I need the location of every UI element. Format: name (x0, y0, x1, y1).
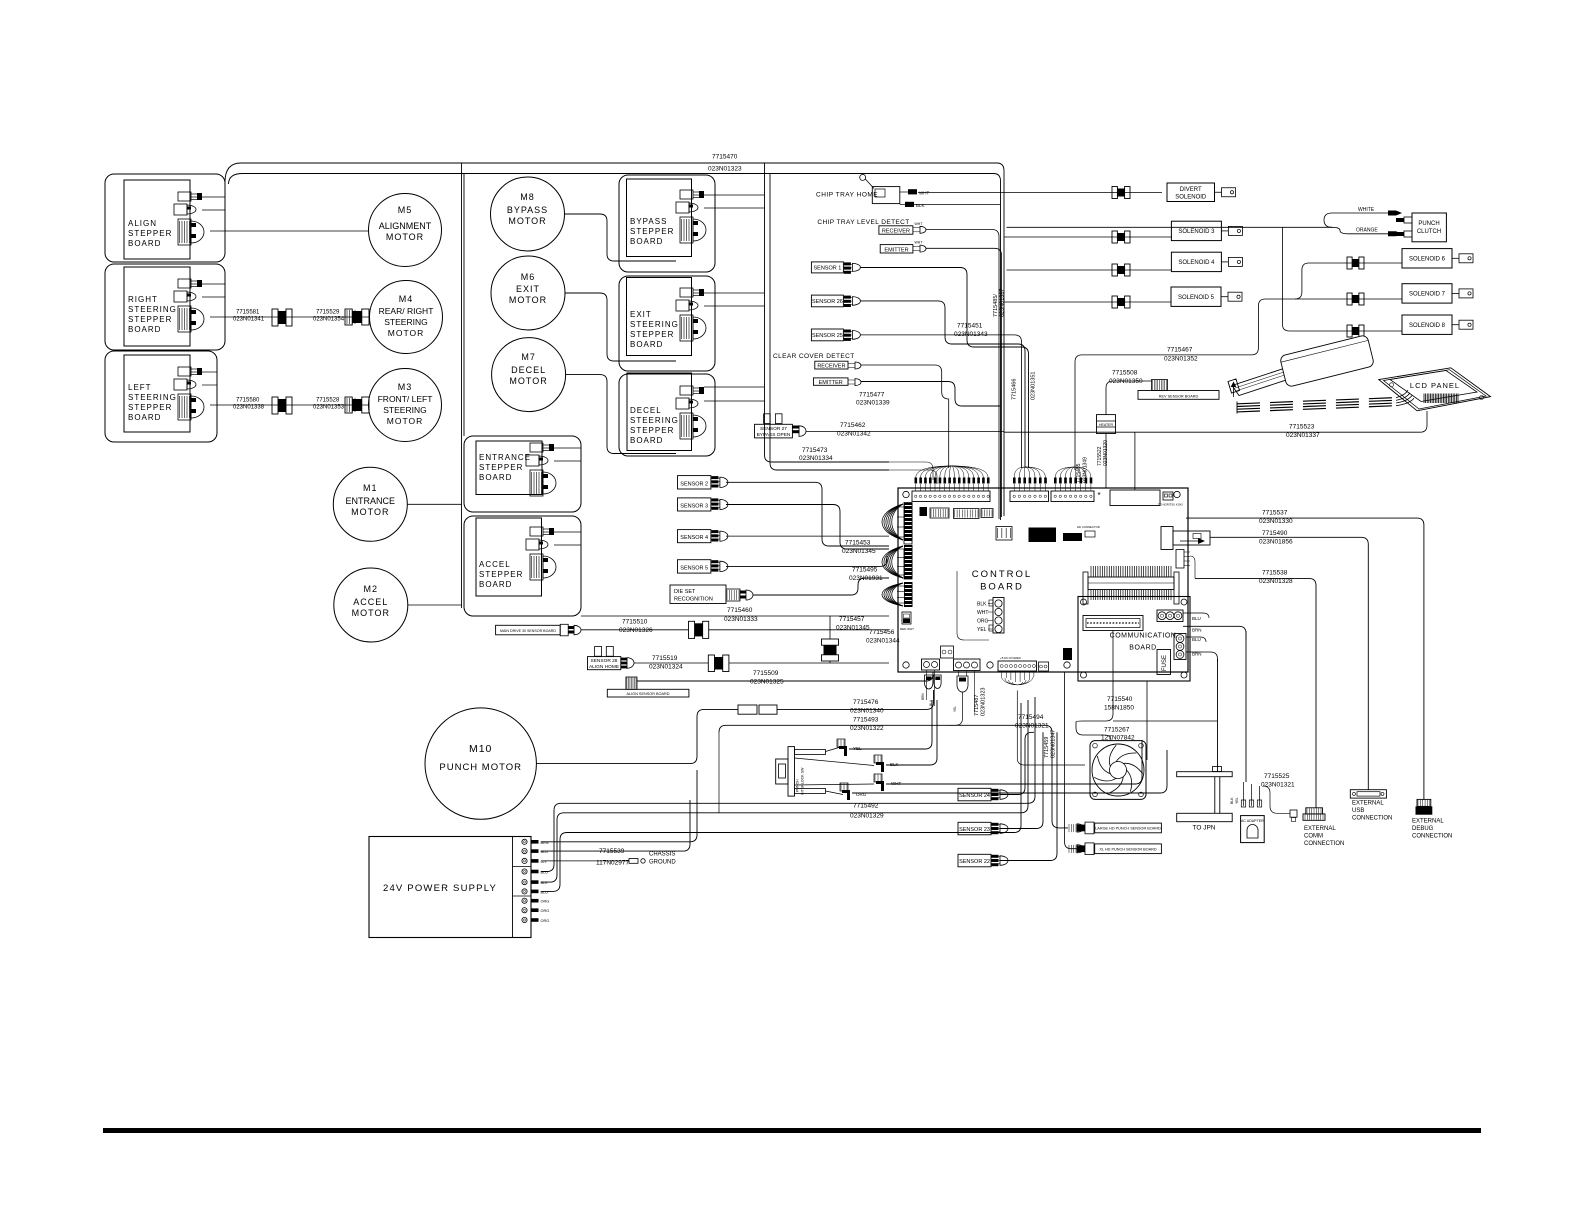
svg-text:023N01324: 023N01324 (649, 664, 683, 671)
svg-text:CLUTCH: CLUTCH (1417, 229, 1441, 235)
svg-text:FUSE: FUSE (1162, 655, 1168, 671)
svg-text:EMITTER: EMITTER (819, 380, 843, 386)
svg-text:023N01321: 023N01321 (1015, 723, 1049, 730)
svg-text:7715493: 7715493 (853, 717, 879, 724)
svg-text:023N01329: 023N01329 (850, 813, 884, 820)
svg-text:EXIT: EXIT (516, 284, 540, 294)
svg-text:WHT: WHT (919, 191, 929, 196)
svg-text:BOARD: BOARD (128, 325, 161, 334)
svg-text:STEERING: STEERING (128, 305, 177, 314)
svg-text:ACCEL: ACCEL (479, 560, 511, 569)
svg-text:BOARD: BOARD (128, 413, 161, 422)
svg-text:ALIGN: ALIGN (128, 219, 157, 228)
svg-text:ORG: ORG (977, 619, 989, 625)
svg-text:7715494: 7715494 (1018, 714, 1044, 721)
svg-text:7715477: 7715477 (859, 392, 885, 399)
svg-text:M6: M6 (521, 272, 536, 282)
svg-text:7715267: 7715267 (1104, 727, 1130, 734)
svg-text:158N1850: 158N1850 (1104, 705, 1134, 712)
svg-text:STEPPER: STEPPER (479, 463, 523, 472)
svg-text:M8: M8 (520, 192, 535, 202)
svg-text:023N01340: 023N01340 (850, 708, 884, 715)
svg-text:023N01345: 023N01345 (836, 625, 870, 632)
svg-text:M3: M3 (398, 382, 413, 392)
svg-text:023N01341: 023N01341 (233, 317, 265, 323)
svg-text:ORG: ORG (541, 919, 550, 923)
svg-text:7715457: 7715457 (839, 616, 865, 623)
svg-text:BLK: BLK (916, 203, 925, 208)
svg-text:CONTROL: CONTROL (972, 569, 1032, 580)
svg-text:BLK: BLK (977, 602, 987, 608)
svg-text:BLU: BLU (1192, 637, 1201, 642)
svg-text:DIE SET: DIE SET (674, 589, 696, 595)
svg-text:023N01351: 023N01351 (1031, 372, 1037, 400)
svg-text:DECEL: DECEL (630, 406, 662, 415)
svg-text:MOTOR: MOTOR (509, 376, 547, 386)
svg-text:FRONT/ LEFT: FRONT/ LEFT (378, 394, 433, 404)
svg-text:INTERLOCK SW: INTERLOCK SW (801, 767, 805, 795)
svg-text:+5 DC POWER: +5 DC POWER (1000, 656, 1022, 660)
svg-text:023N01338: 023N01338 (233, 405, 265, 411)
svg-text:BYPASS OPEN: BYPASS OPEN (757, 432, 791, 438)
svg-text:YEL: YEL (1235, 797, 1239, 804)
svg-text:MOTOR: MOTOR (387, 416, 423, 426)
svg-text:CONNECTION: CONNECTION (1412, 834, 1452, 840)
svg-text:WHITE: WHITE (1358, 207, 1375, 213)
svg-text:023N01333: 023N01333 (724, 616, 758, 623)
svg-text:M2: M2 (364, 584, 379, 594)
svg-text:RECOGNITION: RECOGNITION (674, 597, 713, 603)
svg-text:M1: M1 (363, 483, 378, 493)
svg-text:7715508: 7715508 (1112, 370, 1138, 377)
svg-text:EXTERNAL: EXTERNAL (1352, 801, 1384, 807)
svg-text:023N01353: 023N01353 (313, 405, 345, 411)
svg-text:SENSOR 1: SENSOR 1 (813, 265, 841, 271)
svg-text:7715525: 7715525 (1264, 773, 1290, 780)
svg-text:7715460: 7715460 (727, 607, 753, 614)
svg-text:ALIGNMENT: ALIGNMENT (379, 221, 432, 231)
svg-text:SENSOR 24: SENSOR 24 (959, 793, 990, 799)
svg-text:BOARD: BOARD (1129, 645, 1156, 652)
svg-text:7715462: 7715462 (840, 422, 866, 429)
svg-text:LCD PANEL: LCD PANEL (1410, 381, 1460, 390)
svg-text:BRN: BRN (1192, 652, 1202, 657)
svg-text:PUNCH: PUNCH (796, 779, 800, 792)
svg-text:BOARD: BOARD (479, 580, 512, 589)
svg-text:BOARD: BOARD (630, 436, 663, 445)
svg-text:ORG: ORG (541, 900, 550, 904)
svg-text:RECEIVER: RECEIVER (882, 229, 910, 235)
svg-text:EXTERNAL: EXTERNAL (1304, 826, 1336, 832)
svg-text:7715510: 7715510 (622, 619, 648, 626)
svg-text:023N01330: 023N01330 (1259, 518, 1293, 525)
svg-text:CHASSIS: CHASSIS (649, 852, 675, 858)
svg-text:7715509: 7715509 (753, 670, 779, 677)
svg-text:LARGE HD PUNCH SENSOR BOARD: LARGE HD PUNCH SENSOR BOARD (1095, 827, 1161, 831)
svg-text:USB: USB (1352, 808, 1364, 814)
svg-text:7715453: 7715453 (845, 540, 871, 547)
svg-text:SENSOR 22: SENSOR 22 (959, 859, 990, 865)
svg-text:SENSOR 27: SENSOR 27 (760, 426, 787, 432)
svg-text:SOLENOID: SOLENOID (1175, 195, 1207, 201)
svg-text:023N01326: 023N01326 (619, 627, 653, 634)
svg-text:WHT: WHT (915, 241, 924, 245)
svg-text:7715519: 7715519 (652, 655, 678, 662)
svg-text:HD CONNECTOR: HD CONNECTOR (1077, 525, 1100, 529)
svg-text:7715492: 7715492 (853, 803, 879, 810)
svg-text:MOTOR: MOTOR (352, 608, 390, 618)
svg-text:SOLENOID 6: SOLENOID 6 (1409, 257, 1446, 263)
svg-text:023N01328: 023N01328 (1259, 578, 1293, 585)
svg-text:COMM: COMM (1304, 834, 1323, 840)
svg-text:MOTOR: MOTOR (508, 216, 546, 226)
svg-text:RIGHT: RIGHT (128, 295, 158, 304)
svg-text:REV SENSOR BOARD: REV SENSOR BOARD (1159, 394, 1199, 398)
svg-text:023N01337: 023N01337 (1286, 432, 1320, 439)
svg-text:ORANGE: ORANGE (1356, 228, 1378, 234)
svg-text:GROUND: GROUND (649, 860, 676, 866)
svg-text:STEERING: STEERING (384, 317, 427, 327)
svg-text:WHT: WHT (891, 781, 901, 786)
svg-text:7715451: 7715451 (957, 323, 983, 330)
svg-text:WHT: WHT (977, 610, 988, 616)
svg-text:AC ADAPTER: AC ADAPTER (1241, 819, 1264, 823)
svg-text:STEERING: STEERING (630, 416, 679, 425)
svg-text:CLEAR COVER DETECT: CLEAR COVER DETECT (773, 353, 855, 360)
svg-text:REAR/ RIGHT: REAR/ RIGHT (379, 306, 434, 316)
svg-text:117N02977: 117N02977 (596, 860, 630, 867)
svg-text:BOARD: BOARD (630, 237, 663, 246)
svg-text:BRN: BRN (1192, 628, 1202, 633)
svg-text:023N01347: 023N01347 (1051, 730, 1057, 758)
svg-text:023N01325: 023N01325 (750, 679, 784, 686)
svg-text:STEERING: STEERING (383, 405, 426, 415)
svg-text:023N01350: 023N01350 (1109, 378, 1143, 385)
svg-text:7715538: 7715538 (1262, 570, 1288, 577)
svg-text:7715540: 7715540 (1107, 696, 1133, 703)
svg-text:SENSOR 23: SENSOR 23 (959, 827, 990, 833)
svg-text:023N01856: 023N01856 (1259, 539, 1293, 546)
svg-text:7715537: 7715537 (1262, 510, 1288, 517)
svg-text:7715529: 7715529 (316, 310, 340, 316)
svg-text:SENSOR 28: SENSOR 28 (591, 658, 618, 664)
svg-text:YEL: YEL (953, 706, 957, 712)
svg-text:SENSOR 25: SENSOR 25 (812, 333, 843, 339)
svg-text:*: * (1097, 491, 1100, 500)
svg-text:7715470: 7715470 (712, 154, 738, 161)
svg-text:SENSOR 4: SENSOR 4 (680, 535, 708, 541)
svg-text:SENSOR 3: SENSOR 3 (680, 503, 708, 509)
svg-text:ALIGN SENSOR BOARD: ALIGN SENSOR BOARD (626, 692, 669, 696)
svg-text:BYPASS: BYPASS (507, 205, 548, 215)
svg-text:023N01339: 023N01339 (856, 400, 890, 407)
svg-text:BYPASS: BYPASS (630, 217, 667, 226)
svg-text:023N01321: 023N01321 (1261, 782, 1295, 789)
svg-text:ORG: ORG (541, 909, 550, 913)
svg-text:ENTRANCE: ENTRANCE (346, 496, 396, 506)
svg-text:M5: M5 (398, 205, 413, 215)
svg-text:7715455: 7715455 (1076, 463, 1082, 483)
svg-text:023N01931: 023N01931 (849, 575, 883, 582)
svg-text:RED WHT: RED WHT (900, 627, 914, 631)
svg-text:EXTERNAL: EXTERNAL (1412, 819, 1444, 825)
svg-text:7715476: 7715476 (853, 699, 879, 706)
svg-text:BLK: BLK (1230, 797, 1234, 804)
svg-text:TO JPN: TO JPN (1193, 825, 1216, 832)
svg-text:SOLENOID 7: SOLENOID 7 (1409, 292, 1446, 298)
svg-text:YEL: YEL (977, 627, 987, 633)
svg-text:BLU: BLU (1192, 616, 1201, 621)
svg-text:TO NORITSU KOKI: TO NORITSU KOKI (1158, 503, 1183, 507)
svg-text:SENSOR 26: SENSOR 26 (812, 299, 843, 305)
svg-text:7715485/: 7715485/ (993, 294, 999, 317)
svg-text:CHIP TRAY HOME: CHIP TRAY HOME (816, 192, 878, 199)
svg-text:M4: M4 (399, 294, 414, 304)
svg-text:BOARD: BOARD (128, 239, 161, 248)
svg-text:WHT: WHT (915, 222, 924, 226)
svg-text:MOTOR: MOTOR (388, 328, 424, 338)
svg-text:023N01342: 023N01342 (837, 431, 871, 438)
svg-text:023N01352: 023N01352 (1164, 356, 1198, 363)
svg-text:LEFT: LEFT (128, 383, 152, 392)
svg-text:7715539: 7715539 (599, 848, 625, 855)
svg-text:7715581: 7715581 (236, 310, 260, 316)
svg-text:XL HD PUNCH SENSOR BOARD: XL HD PUNCH SENSOR BOARD (1099, 848, 1157, 852)
svg-text:STEPPER: STEPPER (128, 229, 172, 238)
svg-text:023N01334: 023N01334 (799, 455, 833, 462)
svg-text:BOARD: BOARD (479, 473, 512, 482)
svg-text:7715466: 7715466 (1012, 379, 1018, 400)
svg-text:YEL: YEL (853, 746, 862, 751)
svg-text:M7: M7 (521, 352, 536, 362)
svg-text:STEERING: STEERING (630, 320, 679, 329)
svg-text:BOARD: BOARD (630, 340, 663, 349)
svg-text:DECEL: DECEL (511, 365, 546, 375)
svg-text:023N01387: 023N01387 (1000, 289, 1006, 317)
svg-text:7715473: 7715473 (802, 447, 828, 454)
svg-text:7715490: 7715490 (1262, 530, 1288, 537)
svg-text:7715495: 7715495 (852, 567, 878, 574)
svg-text:PUNCH MOTOR: PUNCH MOTOR (439, 762, 522, 773)
svg-text:023N01345: 023N01345 (842, 548, 876, 555)
svg-text:EMITTER: EMITTER (884, 247, 908, 253)
svg-text:ALIGN HOME: ALIGN HOME (589, 664, 619, 670)
svg-text:BLU: BLU (929, 699, 933, 706)
svg-text:7715580: 7715580 (236, 398, 260, 404)
svg-text:7715459: 7715459 (1044, 737, 1050, 758)
svg-text:BLK: BLK (890, 762, 899, 767)
svg-text:SOLENOID 3: SOLENOID 3 (1178, 229, 1215, 235)
svg-text:CONNECTION: CONNECTION (1304, 841, 1344, 847)
svg-text:023N01323: 023N01323 (981, 688, 987, 716)
svg-text:SENSOR 2: SENSOR 2 (680, 481, 708, 487)
svg-text:SOLENOID 8: SOLENOID 8 (1409, 323, 1446, 329)
svg-text:EXIT: EXIT (630, 310, 652, 319)
svg-text:MOTOR: MOTOR (386, 232, 424, 242)
svg-text:24V POWER SUPPLY: 24V POWER SUPPLY (383, 883, 497, 894)
svg-text:DEBUG: DEBUG (1412, 826, 1434, 832)
svg-text:023N01323: 023N01323 (708, 166, 742, 173)
svg-text:023N01354: 023N01354 (313, 317, 345, 323)
svg-text:7715467: 7715467 (1167, 347, 1193, 354)
svg-text:M10: M10 (469, 743, 492, 755)
svg-text:STEPPER: STEPPER (630, 426, 674, 435)
svg-text:BOARD: BOARD (980, 582, 1024, 593)
svg-text:7715528: 7715528 (316, 398, 340, 404)
svg-text:023N01343: 023N01343 (954, 331, 988, 338)
svg-text:STEPPER: STEPPER (479, 570, 523, 579)
svg-text:STEPPER: STEPPER (630, 227, 674, 236)
svg-text:7715487: 7715487 (974, 695, 980, 716)
svg-text:STEPPER: STEPPER (128, 403, 172, 412)
svg-text:023N01349: 023N01349 (1083, 457, 1089, 483)
svg-text:RECEIVER: RECEIVER (817, 364, 845, 370)
svg-text:COMMUNICATION: COMMUNICATION (1110, 633, 1177, 640)
svg-text:PUNCH: PUNCH (1418, 221, 1439, 227)
svg-text:MOTOR: MOTOR (351, 507, 389, 517)
svg-text:STEERING: STEERING (128, 393, 177, 402)
svg-text:BRN: BRN (921, 693, 925, 700)
svg-text:023N01344: 023N01344 (866, 638, 900, 645)
svg-text:023N01322: 023N01322 (850, 725, 884, 732)
svg-text:ACCEL: ACCEL (353, 597, 388, 607)
svg-text:ENTRANCE: ENTRANCE (479, 453, 531, 462)
svg-text:SOLENOID 5: SOLENOID 5 (1178, 295, 1215, 301)
svg-text:STEPPER: STEPPER (630, 330, 674, 339)
svg-text:MOTOR: MOTOR (509, 295, 547, 305)
svg-text:DIVERT: DIVERT (1180, 187, 1202, 193)
svg-text:SENSOR 5: SENSOR 5 (680, 566, 708, 572)
svg-text:SOLENOID 4: SOLENOID 4 (1178, 260, 1215, 266)
svg-text:CHIP TRAY LEVEL DETECT: CHIP TRAY LEVEL DETECT (817, 219, 909, 226)
svg-text:HEATER: HEATER (1099, 423, 1113, 427)
svg-text:CONNECTION: CONNECTION (1352, 816, 1392, 822)
svg-text:STEPPER: STEPPER (128, 315, 172, 324)
svg-text:MAIN DRIVE 30 SENSOR BOARD: MAIN DRIVE 30 SENSOR BOARD (500, 629, 556, 633)
svg-text:7715523: 7715523 (1289, 424, 1315, 431)
